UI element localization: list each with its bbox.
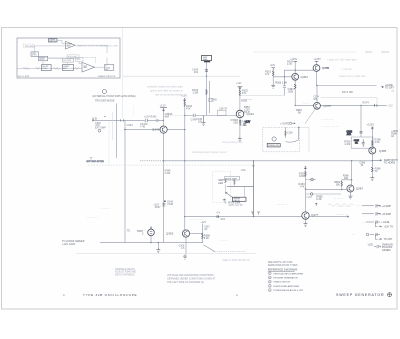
svg-text:150: 150 — [198, 120, 203, 123]
sweep reset multi box — [39, 56, 48, 60]
wire V9 drop to bootstrap box — [360, 105, 362, 137]
wire faint stub — [108, 120, 110, 165]
svg-text:C348: C348 — [167, 203, 173, 206]
svg-text:472: 472 — [265, 73, 270, 76]
svg-text:+12V GAIN: +12V GAIN — [62, 242, 75, 246]
sweep mag switch box — [202, 56, 212, 61]
svg-text:TD: TD — [127, 230, 131, 233]
block diagram inset frame — [17, 38, 120, 78]
svg-text:5K: 5K — [375, 170, 378, 173]
faint annotations top right — [327, 58, 366, 78]
wire Q377 collector — [305, 169, 307, 212]
inductor L344 plate — [239, 121, 241, 125]
svg-text:10K: 10K — [336, 183, 341, 186]
wire timing box entry — [299, 127, 309, 152]
transistor Q370 — [313, 65, 320, 72]
transistor Q343 — [160, 126, 167, 133]
svg-text:6.2K: 6.2K — [316, 197, 322, 201]
node Q364 collector junction — [295, 70, 296, 71]
trigger multi box — [31, 52, 39, 56]
svg-text:Q364: Q364 — [301, 75, 309, 79]
transistor Q377 — [302, 212, 309, 219]
neon lamp B367 — [148, 229, 155, 236]
title circled plus — [388, 293, 392, 297]
wire gate out line — [317, 85, 377, 87]
tick marks at input junctions — [104, 116, 123, 121]
wire Q375 emitter curve — [305, 109, 315, 124]
svg-text:Q387: Q387 — [356, 187, 364, 191]
capacitor C343 on V4 — [205, 70, 208, 71]
gate entry circle arrow — [289, 122, 291, 124]
svg-text:R363 1.8K: R363 1.8K — [275, 81, 287, 84]
test point circle — [311, 178, 314, 181]
svg-text:+12V R342: +12V R342 — [144, 116, 157, 119]
circled ref below input — [98, 129, 101, 132]
timing resistor inside dashed box — [285, 131, 287, 135]
svg-text:~~ ~~~ ~~~: ~~ ~~~ ~~~ — [190, 219, 204, 222]
circled ref 2 at trigger input — [102, 89, 106, 93]
sweep length box B — [232, 197, 246, 201]
fold crease horizontal — [253, 51, 356, 53]
svg-text:EXT SWP: EXT SWP — [95, 127, 106, 130]
wire bus2 — [185, 216, 349, 218]
svg-text:+125V: +125V — [367, 122, 375, 126]
inter-stage resistor mark — [54, 67, 80, 69]
supply +125V at Q364 — [293, 60, 297, 62]
wire connector row 2 — [362, 212, 381, 215]
svg-text:+12V: +12V — [367, 243, 373, 246]
svg-text:Q385: Q385 — [379, 149, 387, 153]
svg-text:MULTI: MULTI — [32, 55, 37, 57]
svg-text:C160: C160 — [287, 132, 293, 135]
node input terminal — [92, 120, 93, 121]
svg-text:TIMING SW: TIMING SW — [268, 145, 279, 147]
ground at Q363 — [183, 255, 187, 260]
supply +12V at Q343 — [160, 108, 167, 111]
svg-text:TRIGGER MODE: TRIGGER MODE — [95, 100, 115, 103]
wire trig pickoff vertical — [116, 104, 118, 159]
wire Q385 base from box — [370, 148, 372, 150]
supply +125V at Q370 — [315, 60, 319, 62]
connector row 4 pin circle — [366, 233, 369, 236]
resistor on R-column — [201, 234, 203, 239]
svg-text:C346: C346 — [191, 118, 197, 121]
node bias junction — [284, 76, 285, 77]
wire out amp to horiz box — [95, 66, 105, 68]
svg-text:47K: 47K — [300, 185, 305, 189]
svg-text:~~ ~~~ ~~: ~~ ~~~ ~~ — [277, 203, 289, 206]
wire gate out arrow — [382, 87, 384, 88]
wire V3 tall vertical — [184, 101, 186, 230]
wire Q344 collector — [239, 87, 241, 110]
capacitor C4 on bus2 — [217, 215, 218, 218]
disconnect amp box — [63, 59, 74, 63]
wire faint vertical x377 — [376, 98, 378, 106]
svg-text:(SEE TL SWG ADJUST R): (SEE TL SWG ADJUST R) — [223, 259, 250, 262]
svg-text:C344: C344 — [127, 123, 134, 127]
wire B367 arrow — [150, 227, 152, 229]
svg-text:+125V: +125V — [314, 58, 322, 61]
svg-text:EXT SWP ATTEN: EXT SWP ATTEN — [87, 160, 105, 163]
svg-text:UTB: UTB — [324, 66, 329, 70]
cluster connecting wires — [225, 178, 244, 204]
supply +12V at Q377 — [304, 166, 307, 168]
svg-text:~~ ~ ~~~ ~: ~~ ~ ~~~ ~ — [87, 217, 99, 220]
wire R384 branch — [342, 180, 352, 190]
svg-text:C345: C345 — [211, 98, 218, 101]
small box R346a — [209, 98, 213, 101]
svg-text:1µH: 1µH — [243, 121, 248, 125]
wire sweep line y105.4 — [295, 104, 386, 106]
faint note mid-left — [147, 86, 183, 97]
svg-text:~ ~~~: ~ ~~~ — [355, 204, 362, 207]
bootstrap box — [351, 137, 373, 148]
svg-text:C4A: C4A — [241, 169, 246, 172]
svg-text:6.2K: 6.2K — [204, 237, 209, 240]
svg-text:R376 FOR REGIS: R376 FOR REGIS — [115, 273, 135, 276]
wire connector row 4 — [370, 233, 382, 240]
wire cluster dark horizontal — [227, 186, 254, 188]
svg-text:TRIGGER GENERATOR: TRIGGER GENERATOR — [273, 277, 298, 280]
svg-text:VERTICAL INPUT AMPLIFIER: VERTICAL INPUT AMPLIFIER — [273, 272, 303, 275]
capacitor C364 — [283, 86, 286, 88]
wire Q343 right to V3 — [167, 129, 185, 131]
svg-text:Q375: Q375 — [324, 104, 332, 108]
wire Q370 collector — [316, 61, 318, 64]
wire emitter branch L344 — [240, 120, 242, 127]
wire bias vertical B — [283, 70, 285, 96]
node R384 branch — [351, 179, 352, 180]
wire diagonal to dashed run — [204, 245, 215, 252]
ground at R388 — [370, 176, 374, 181]
ref row 2 — [268, 276, 271, 279]
svg-text:2.2M: 2.2M — [165, 172, 171, 175]
svg-text:TO CRT: TO CRT — [385, 87, 394, 90]
supply +12V at V3 — [184, 98, 186, 100]
svg-text:HORIZONTAL AMPLIFIER: HORIZONTAL AMPLIFIER — [273, 285, 299, 288]
svg-text:+12V: +12V — [236, 82, 242, 85]
transistor Q344 — [236, 110, 244, 118]
svg-text:~~ ~~~ ~~: ~~ ~~~ ~~ — [336, 213, 348, 216]
wire bus1 dashed lead — [140, 160, 164, 162]
svg-text:47K: 47K — [242, 91, 247, 95]
supply +125V at Q344 — [238, 87, 243, 89]
wire R388 to ground — [371, 167, 373, 177]
wire Q364 collector — [294, 61, 296, 73]
wire Q363 below — [185, 237, 187, 254]
sweep/mag switch box (dark) — [48, 39, 57, 42]
sweep gate amplifier triangle U-a — [66, 41, 76, 49]
wire faint vertical x112 — [111, 112, 113, 140]
svg-text:MAG SW: MAG SW — [49, 40, 56, 43]
svg-text:TIMING SWITCH: TIMING SWITCH — [273, 282, 290, 284]
holdoff dashed feedback wire — [39, 57, 96, 63]
wire test point stub — [306, 179, 317, 181]
svg-text:R376 250K: R376 250K — [226, 178, 237, 180]
connector row labels — [381, 205, 393, 252]
svg-text:A: A — [236, 293, 238, 297]
note swp mag regis — [115, 268, 136, 277]
varactor circle on y194 — [310, 193, 313, 196]
wire Q344 base — [185, 115, 237, 117]
svg-text:SWEEP: SWEEP — [66, 44, 72, 46]
wire faint stub right of Q344 — [244, 99, 252, 101]
svg-text:TO HORIZ: TO HORIZ — [384, 162, 396, 165]
reset multi wires — [43, 45, 107, 64]
wire timing inner vertical — [285, 127, 287, 138]
supply tick near Q377 — [315, 203, 317, 206]
wire ext input horizontal — [93, 119, 163, 121]
svg-text:MAG: MAG — [203, 58, 208, 61]
faint left labels of connector rows — [336, 205, 367, 237]
svg-text:TYPE 32B OSCILLOSCOPE: TYPE 32B OSCILLOSCOPE — [83, 293, 137, 297]
resistor R345 on V4 — [206, 90, 208, 95]
bottom signal wire — [17, 67, 82, 69]
wire bus2 arrow — [347, 216, 349, 218]
capacitor C342 on input line — [145, 119, 147, 123]
output amplifier triangle U-b — [82, 62, 95, 72]
resistor R344 on V3 — [184, 101, 186, 106]
wire bias vertical A — [272, 68, 274, 85]
svg-text:.02B: .02B — [233, 122, 238, 125]
svg-text:R353: R353 — [241, 100, 247, 103]
wire B367 stubs — [150, 227, 152, 243]
svg-text:+12V: +12V — [160, 104, 166, 108]
wire Q344 emitter — [239, 118, 241, 137]
wire Q343 base — [124, 129, 160, 131]
svg-text:Q363: Q363 — [166, 232, 174, 236]
svg-text:~~ ~~ ~~: ~~ ~~ ~~ — [333, 197, 343, 200]
svg-text:sawtooth sweep runs when gate: sawtooth sweep runs when gate — [147, 86, 183, 89]
capacitor C346 on base line — [193, 114, 195, 117]
resistor R364 below Q364 — [294, 84, 296, 89]
svg-text:+12V TO: +12V TO — [384, 226, 394, 229]
wire Q364 base — [273, 76, 292, 78]
svg-text:7-45: 7-45 — [140, 125, 146, 128]
wire bus1 — [164, 160, 373, 162]
wire Q370 base — [284, 69, 313, 71]
svg-text:+12V: +12V — [181, 94, 187, 98]
svg-text:~~~: ~~~ — [362, 221, 367, 224]
svg-text:SWEEP GENERATOR: SWEEP GENERATOR — [336, 293, 384, 297]
svg-text:SWEEP CIRCUITS: SWEEP CIRCUITS — [98, 76, 116, 78]
svg-text:C347 R: C347 R — [219, 107, 227, 110]
svg-text:+A SWP: +A SWP — [382, 205, 391, 208]
wire lower branch y194 — [306, 193, 342, 195]
pot arrow in length cluster — [226, 192, 233, 197]
svg-text:1K: 1K — [361, 165, 364, 167]
wire V6 vertical — [253, 161, 255, 217]
svg-text:FIG 2-1 SWP: FIG 2-1 SWP — [18, 76, 30, 78]
ref row 4 — [268, 285, 271, 288]
svg-text:ASSEM: ASSEM — [382, 249, 390, 252]
wire R-column right of Q363 — [201, 224, 203, 243]
diode D343 bars — [162, 204, 165, 206]
wire Q385 collector — [371, 129, 373, 147]
capacitor in bootstrap box — [362, 139, 365, 147]
crease dark dashes — [365, 51, 389, 53]
wire sweep-mag box drop V4 — [206, 62, 208, 115]
dotted vertical near crease — [133, 106, 135, 116]
svg-text:TRIGGER: TRIGGER — [25, 46, 35, 48]
trigger input label box (dashed) — [24, 44, 35, 48]
resistor R352 on Q344 collector — [239, 90, 241, 95]
wire emitter tie to Q387 — [351, 161, 353, 185]
svg-text:434: 434 — [165, 116, 170, 119]
diode at Q344 emitter — [243, 124, 247, 126]
svg-text:+ runs up: + runs up — [341, 68, 352, 71]
svg-text:TD-P: TD-P — [244, 111, 250, 114]
transistor Q387 — [347, 185, 354, 192]
circled ref 3 in timing box — [272, 137, 276, 141]
wire Q363 emitter right — [190, 233, 203, 235]
wire dashed run — [213, 250, 247, 252]
reference list rows — [268, 272, 304, 292]
resistor cluster b — [234, 180, 236, 184]
wire left tall vertical V1 — [124, 120, 126, 242]
wire Q343 collector — [162, 111, 164, 126]
svg-text:+12V: +12V — [270, 64, 276, 67]
svg-text:+ gate out +18v when gate: + gate out +18v when gate — [327, 58, 357, 61]
svg-text:SEMICONDUCTOR TYPES: SEMICONDUCTOR TYPES — [268, 264, 298, 267]
wire Q387 base line — [306, 189, 347, 191]
wire gnd stub bus3 — [157, 243, 159, 248]
svg-text:~ ~~~ ~~ ~~~: ~ ~~~ ~~ ~~~ — [336, 205, 352, 208]
svg-text:1K: 1K — [391, 136, 394, 138]
wire Q377 ground stub — [305, 218, 307, 222]
wire Q387 emitter — [349, 192, 351, 195]
svg-text:47K: 47K — [186, 107, 191, 111]
svg-text:SWP CAL 5K: SWP CAL 5K — [229, 204, 244, 207]
wire connector row 5 — [374, 245, 381, 248]
svg-text:.001: .001 — [347, 134, 352, 136]
svg-text:+ GATE: + GATE — [280, 121, 289, 125]
pickoff box at Q344 base — [218, 110, 226, 115]
svg-text:C4: C4 — [217, 211, 221, 215]
wire V6 arrow — [253, 165, 255, 167]
svg-text:A: A — [63, 293, 65, 297]
svg-text:Q343: Q343 — [152, 128, 160, 132]
faint separator rule — [76, 253, 256, 255]
supply +125V at Q385 — [371, 127, 373, 129]
wire connector row 1 — [362, 204, 381, 207]
svg-text:sweep runs to right side: sweep runs to right side — [339, 75, 366, 78]
ground at bus3 — [156, 248, 160, 253]
svg-text:THE LEFT SIDE OF DIAGRAM (2): THE LEFT SIDE OF DIAGRAM (2) — [167, 281, 204, 284]
svg-text:C386: C386 — [306, 196, 312, 199]
wire faint y97.5 — [321, 97, 378, 99]
miller integrator box — [42, 65, 52, 71]
svg-text:bootstrap keeps charge current: bootstrap keeps charge current — [192, 151, 227, 154]
wire sweep out arrow — [372, 160, 382, 162]
capacitor on V9 — [360, 132, 363, 133]
transistor Q385 — [369, 147, 376, 154]
wavy annotation under Q387 — [328, 204, 353, 206]
svg-text:~~ ~~~ ~~: ~~ ~~~ ~~ — [321, 118, 333, 121]
underline reference diagrams — [268, 270, 295, 272]
svg-text:2.2M: 2.2M — [345, 142, 351, 146]
wire Q375 collector up — [316, 86, 318, 103]
resistor R386 above Q385 — [371, 141, 373, 146]
svg-text:.001: .001 — [193, 70, 199, 74]
svg-text:100K: 100K — [299, 174, 305, 178]
wire sweep length cluster dashed — [213, 171, 231, 202]
svg-text:E B: E B — [93, 117, 98, 121]
svg-text:.001: .001 — [220, 217, 226, 221]
transistor Q364 — [292, 73, 299, 80]
resistor in length cluster — [225, 179, 227, 183]
diode D343 on V2 — [164, 200, 166, 202]
tick marks on sweep line — [375, 104, 377, 107]
wire Q385 emitter junction — [371, 154, 373, 167]
resistor R384b — [341, 181, 343, 186]
resistor R388 below Q385 — [371, 167, 373, 172]
sweep amp box — [63, 65, 74, 71]
svg-text:INTEG: INTEG — [42, 68, 48, 70]
transistor Q363 — [182, 230, 189, 237]
svg-text:.02B: .02B — [288, 90, 293, 93]
ground at Q387 — [348, 195, 352, 199]
wire Q370 emitter to gate line — [316, 71, 318, 85]
svg-text:OUT: OUT — [84, 66, 87, 68]
input resistor mark — [23, 67, 40, 69]
svg-text:+ GATE: + GATE — [381, 221, 390, 224]
svg-text:4.7K: 4.7K — [287, 63, 292, 66]
svg-text:~ ~~ ~: ~ ~~ ~ — [303, 104, 310, 106]
svg-text:3.9K: 3.9K — [375, 140, 381, 144]
svg-text:+B SWP: +B SWP — [382, 213, 392, 216]
svg-text:POWER REGULATION & CRT: POWER REGULATION & CRT — [273, 289, 304, 292]
ref row 1 — [268, 272, 271, 275]
wire Q364 emitter down — [294, 80, 296, 105]
wire bus3 — [100, 242, 203, 244]
ground at Q377 — [304, 222, 308, 227]
node base junction — [184, 115, 185, 116]
linkage left end mark — [90, 158, 93, 161]
wire long faint horizontal y76 — [123, 75, 240, 77]
transistor Q375 — [314, 102, 321, 109]
svg-text:REFERENCE DIAGRAMS: REFERENCE DIAGRAMS — [268, 269, 298, 272]
gate box faint — [76, 58, 84, 62]
component mark on input line — [156, 119, 159, 121]
ref row 5 — [268, 289, 271, 292]
wire Q344 collector to right — [240, 94, 285, 96]
sweep length box A — [225, 176, 240, 180]
svg-text:~ ~~~~ ~~~ ~~: ~ ~~~~ ~~~ ~~ — [322, 125, 339, 128]
dashed linkage line — [88, 164, 254, 166]
lamp B367 electrodes — [150, 231, 152, 233]
svg-text:TO CRT: TO CRT — [384, 238, 393, 241]
svg-text:Q377: Q377 — [311, 213, 319, 217]
resistor R362 bias — [272, 71, 274, 76]
svg-text:rate set by timing switch: rate set by timing switch — [155, 94, 182, 97]
ground at bias A — [271, 85, 275, 89]
node emitter column — [202, 233, 203, 234]
svg-text:+12V: +12V — [387, 104, 393, 107]
svg-text:R374: R374 — [363, 101, 370, 105]
supply +12V bias — [271, 68, 275, 70]
to horiz amp box — [105, 65, 114, 71]
timing switch dashed box — [263, 127, 300, 152]
svg-text:~ ~~~ ~~: ~ ~~~ ~~ — [101, 207, 111, 210]
svg-text:DISCONN: DISCONN — [63, 60, 72, 62]
wire Q344 base lead faint — [168, 115, 185, 117]
wire C345 branch — [208, 81, 210, 113]
fold crease vertical — [122, 28, 124, 118]
svg-text:180: 180 — [313, 98, 318, 101]
svg-text:R373 18K: R373 18K — [342, 91, 353, 94]
ref row 3 — [268, 280, 271, 283]
